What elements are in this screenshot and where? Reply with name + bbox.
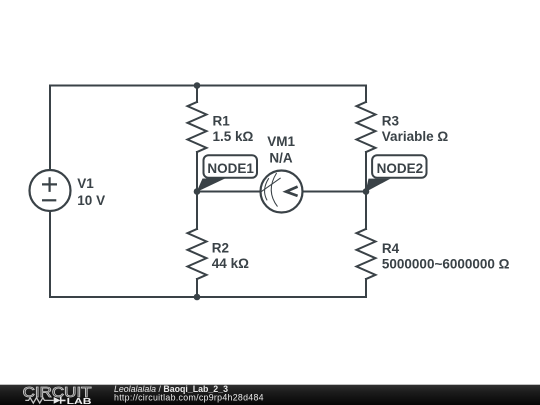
meter needle: [261, 178, 281, 192]
resistor R4 zigzag: [357, 229, 376, 279]
node NODE2 box: [372, 155, 426, 178]
resistor R2 zigzag: [188, 229, 207, 279]
node NODE2 flag tail: [366, 179, 391, 192]
svg-text:VM1: VM1: [267, 134, 295, 149]
svg-text:http://circuitlab.com/cp9rp4h2: http://circuitlab.com/cp9rp4h28d484: [114, 392, 264, 402]
svg-text:NODE2: NODE2: [377, 161, 424, 176]
wire left vertical lower: [49, 211, 51, 297]
svg-text:N/A: N/A: [269, 150, 293, 165]
svg-text:1.5 kΩ: 1.5 kΩ: [213, 129, 254, 144]
junction dot node A (NODE1): [194, 188, 201, 195]
voltage source V1: [30, 170, 71, 211]
wire middle branch top stub: [196, 86, 198, 103]
wire node1 to voltmeter: [197, 191, 261, 193]
resistor R1 zigzag: [188, 102, 207, 152]
junction dot top middle: [194, 82, 201, 89]
wire voltmeter to node2: [303, 191, 367, 193]
wire right branch node to R4: [365, 192, 367, 230]
svg-text:NODE1: NODE1: [207, 161, 254, 176]
svg-text:R3: R3: [382, 114, 400, 129]
svg-text:44 kΩ: 44 kΩ: [212, 256, 249, 271]
junction dot node B (NODE2): [363, 188, 370, 195]
junction dot bottom middle: [194, 294, 201, 301]
svg-text:5000000~6000000 Ω: 5000000~6000000 Ω: [382, 256, 510, 271]
meter less-than mark: [286, 187, 298, 196]
wire top horizontal: [50, 85, 366, 87]
svg-text:V1: V1: [77, 176, 94, 191]
wire right branch between R3 and node: [365, 152, 367, 192]
wire right branch bottom stub: [365, 279, 367, 297]
svg-text:Variable Ω: Variable Ω: [382, 129, 449, 144]
voltmeter VM1: [261, 171, 303, 213]
svg-text:R2: R2: [212, 241, 229, 256]
wire left vertical upper: [49, 86, 51, 171]
node NODE1 box: [204, 155, 258, 178]
meter right arc: [271, 173, 277, 207]
logo diode symbol: [54, 397, 61, 404]
svg-text:LAB: LAB: [67, 396, 92, 405]
V1 minus sign: [42, 199, 56, 201]
wire right branch top stub: [365, 86, 367, 103]
wire middle branch bottom stub: [196, 279, 198, 297]
wire middle branch between R1 and node: [196, 152, 198, 192]
svg-text:R1: R1: [213, 114, 231, 129]
node NODE1 flag tail: [197, 179, 226, 193]
wire bottom horizontal: [50, 296, 366, 298]
wire middle branch node to R2: [196, 192, 198, 230]
V1 plus sign: [42, 177, 57, 192]
resistor R3 zigzag: [357, 102, 376, 152]
meter left arc: [265, 178, 269, 200]
svg-text:R4: R4: [382, 241, 400, 256]
logo resistor squiggle: [25, 398, 53, 403]
svg-text:10 V: 10 V: [77, 193, 105, 208]
